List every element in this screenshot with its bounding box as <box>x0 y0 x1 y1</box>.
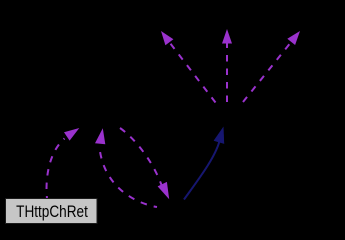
svg-text:THttpChRet: THttpChRet <box>16 203 88 222</box>
